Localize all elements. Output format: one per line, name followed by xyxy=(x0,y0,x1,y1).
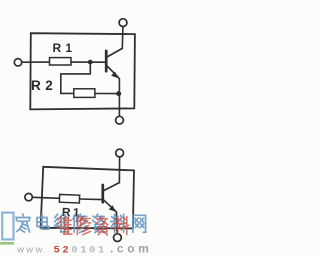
resistor R1 (bottom) xyxy=(59,194,79,203)
transistor Q1 collector arm xyxy=(107,48,122,57)
terminal collector top xyxy=(116,149,124,157)
terminal (input) left xyxy=(25,193,32,200)
wire collector up xyxy=(118,157,120,183)
svg-text:WWW.: WWW. xyxy=(17,246,48,255)
watermark char 家 (blue) xyxy=(16,214,30,232)
terminal emitter bottom xyxy=(116,116,124,124)
resistor R2 xyxy=(74,89,95,98)
svg-text:R2: R2 xyxy=(31,78,57,93)
watermark char 电 (blue) xyxy=(37,214,49,229)
watermark char 修 (red) xyxy=(76,217,90,235)
watermark char 修 (blue) xyxy=(73,214,87,232)
package outline box (bottom circuit) xyxy=(41,167,134,229)
wire emitter down xyxy=(118,77,120,116)
watermark logo green bar xyxy=(0,242,14,245)
watermark char 资 (red) xyxy=(96,216,108,235)
node base junction dot xyxy=(88,60,93,65)
svg-text:520101: 520101 xyxy=(54,245,107,256)
watermark char 网 (blue) xyxy=(133,215,146,232)
emitter arrowhead (bottom) xyxy=(109,205,116,212)
wire R1 to base xyxy=(80,198,103,201)
resistor R1 xyxy=(50,58,72,65)
wire collector up xyxy=(121,27,124,49)
terminal collector top xyxy=(119,19,127,27)
wire input to R1 xyxy=(32,197,59,198)
terminal (input) left xyxy=(14,59,21,66)
emitter arrowhead xyxy=(111,72,118,79)
transistor Q2 collector arm xyxy=(104,183,120,191)
transistor Q1 emitter arm xyxy=(107,66,118,77)
wire R2 to emitter xyxy=(95,93,119,95)
node emitter junction dot xyxy=(116,91,121,96)
wire junction down xyxy=(89,63,91,74)
watermark char 资 (blue) xyxy=(92,214,104,233)
svg-text:R1: R1 xyxy=(53,41,77,55)
watermark char 维 (blue) xyxy=(54,214,68,232)
wire input to R1 xyxy=(22,61,50,63)
wire R2 loop left xyxy=(60,74,62,94)
wire R2 loop top xyxy=(61,73,91,75)
watermark logo square xyxy=(2,213,13,240)
watermark char 料 (blue) xyxy=(111,214,126,232)
watermark char 料 (red) xyxy=(114,217,129,235)
wire emitter down xyxy=(115,211,117,234)
transistor Q2 base bar xyxy=(101,185,104,202)
watermark char 维 (red) xyxy=(57,216,71,234)
terminal emitter bottom xyxy=(114,234,122,242)
transistor Q1 base bar xyxy=(105,51,108,71)
wire R1 to base xyxy=(71,61,106,63)
svg-text:.com: .com xyxy=(110,242,152,256)
transistor Q2 emitter arm xyxy=(104,200,115,210)
wire to R2 xyxy=(61,92,74,94)
watermark chinese text (blue layer + red layer) xyxy=(16,214,146,235)
package outline box (top circuit) xyxy=(30,33,135,109)
